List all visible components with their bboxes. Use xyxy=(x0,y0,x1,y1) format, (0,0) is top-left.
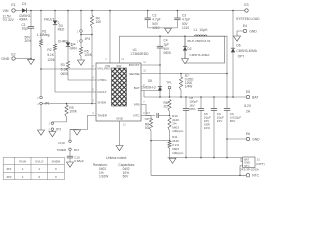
svg-text:UVLO: UVLO xyxy=(35,160,44,164)
svg-text:JP1: JP1 xyxy=(6,167,12,171)
svg-text:NTC: NTC xyxy=(252,174,260,178)
capacitor C5 10uF xyxy=(200,97,202,109)
wire TIMER pin net xyxy=(70,116,96,141)
capacitor C10 0.68uF timer xyxy=(69,151,71,157)
LED D3 RED xyxy=(53,21,57,25)
svg-text:0: 0 xyxy=(38,175,40,179)
ground below IC xyxy=(116,146,123,151)
wire BAT junction drop xyxy=(159,91,161,98)
ground below JP2 xyxy=(49,132,56,137)
svg-text:E2: E2 xyxy=(11,53,15,57)
svg-text:SYSTEM LOAD: SYSTEM LOAD xyxy=(236,17,260,21)
svg-text:C/10: C/10 xyxy=(58,141,65,145)
svg-text:16V: 16V xyxy=(217,119,223,123)
svg-text:10%: 10% xyxy=(204,126,210,130)
svg-text:TO 32V: TO 32V xyxy=(3,18,15,22)
svg-text:LT3652EDD: LT3652EDD xyxy=(131,52,150,56)
connector J1 battery DF3 xyxy=(243,157,255,168)
svg-text:CHRG: CHRG xyxy=(97,78,107,82)
svg-text:2Ω: 2Ω xyxy=(163,105,168,109)
wire C2 C3 common gnd xyxy=(148,27,178,29)
wire system load column xyxy=(232,11,234,49)
wire R3 to CHRG pin xyxy=(68,71,96,80)
svg-text:50V: 50V xyxy=(123,175,130,179)
svg-text:TIMER: TIMER xyxy=(57,148,67,152)
capacitor C4 1uF boost xyxy=(159,36,161,46)
terminal E7 NTC xyxy=(246,174,249,177)
ground below C2 C3 xyxy=(165,28,172,33)
wire GND rail to J1 xyxy=(241,158,243,162)
wire R1 to VIN_REG pin xyxy=(40,47,42,69)
svg-text:1: 1 xyxy=(38,167,40,171)
svg-text:1: 1 xyxy=(22,175,24,179)
wire JP1 to ground xyxy=(40,105,42,130)
svg-text:GRN: GRN xyxy=(70,46,78,50)
wire BOOST pin xyxy=(141,64,160,66)
svg-text:CMDSH-3: CMDSH-3 xyxy=(141,86,156,90)
svg-text:L1: L1 xyxy=(194,28,198,32)
wire R4 to SHDN net xyxy=(91,28,93,104)
svg-text:JP4: JP4 xyxy=(85,37,91,41)
component box IHLP / CMSH3 labels xyxy=(185,36,225,63)
wire BAT pin drop left xyxy=(143,91,145,98)
svg-text:10µF: 10µF xyxy=(22,27,30,31)
wire R2 to FAULT pin xyxy=(55,52,96,93)
LED D4 GRN xyxy=(66,43,70,47)
svg-text:E5: E5 xyxy=(246,90,250,94)
svg-text:8.2V: 8.2V xyxy=(244,104,252,108)
svg-text:R3: R3 xyxy=(61,63,65,67)
capacitor C3 4.7uF xyxy=(176,11,178,19)
ground below C1 xyxy=(28,59,35,64)
node VIN rail junctions xyxy=(30,10,32,12)
svg-text:VFB: VFB xyxy=(134,103,140,107)
wire BAT rail xyxy=(144,96,246,98)
svg-text:NTC: NTC xyxy=(133,114,140,118)
wire BAT pin xyxy=(141,90,160,92)
svg-text:GND: GND xyxy=(249,29,257,33)
svg-text:100ppm: 100ppm xyxy=(172,129,184,133)
capacitor C9 10uF xyxy=(213,97,215,109)
wire VIN terminal to D1 xyxy=(15,10,22,12)
capacitor C1 input 10uF xyxy=(30,11,32,27)
svg-text:SENSE: SENSE xyxy=(129,72,140,76)
wire NTC to J1 pin xyxy=(240,166,243,176)
ground below R5 xyxy=(78,60,85,65)
svg-text:1: 1 xyxy=(22,167,24,171)
svg-text:100ppm: 100ppm xyxy=(172,151,184,155)
diode D5 CMDSH-3 boost xyxy=(159,65,161,86)
wire top VIN rail xyxy=(26,10,244,12)
svg-text:SHDN: SHDN xyxy=(52,160,61,164)
svg-text:1210: 1210 xyxy=(182,26,189,30)
svg-text:20%: 20% xyxy=(25,39,32,43)
svg-text:FAULT: FAULT xyxy=(97,90,107,94)
svg-text:0: 0 xyxy=(55,167,57,171)
resistor R9 100K SHDN divider xyxy=(66,103,68,105)
svg-text:10µH: 10µH xyxy=(199,28,208,32)
svg-text:JP2: JP2 xyxy=(56,127,62,131)
wire D2 to ground xyxy=(184,51,186,59)
wire GND rail bottom xyxy=(168,157,242,159)
svg-text:1.13Meg: 1.13Meg xyxy=(37,33,50,37)
wire VIN rail to VIN pin xyxy=(109,11,111,64)
svg-text:D1: D1 xyxy=(22,2,26,6)
ground below C10 xyxy=(67,162,74,167)
resistor R1 1.13Meg VIN_REG divider xyxy=(40,11,42,40)
svg-text:JP2: JP2 xyxy=(6,175,12,179)
wire SHDN net horizontal xyxy=(42,103,96,105)
svg-text:10K: 10K xyxy=(96,20,103,24)
wire L1 to sense column xyxy=(207,36,227,97)
capacitor C6 0.022uF xyxy=(226,97,228,109)
svg-text:C7: C7 xyxy=(146,111,150,115)
svg-text:CMSH3-40MA: CMSH3-40MA xyxy=(190,53,211,57)
svg-text:CMSH3-40MA: CMSH3-40MA xyxy=(236,49,257,53)
svg-text:E6: E6 xyxy=(246,132,250,136)
svg-text:E4: E4 xyxy=(243,24,247,28)
ground below E4 xyxy=(234,36,241,41)
svg-text:BAT: BAT xyxy=(252,95,258,99)
svg-text:100K: 100K xyxy=(69,109,77,113)
terminal E6 GND output xyxy=(226,138,228,140)
svg-text:OPT: OPT xyxy=(238,54,245,58)
svg-text:5.1K: 5.1K xyxy=(47,53,54,57)
svg-text:RUN: RUN xyxy=(19,160,26,164)
capacitor C2 4.7uF xyxy=(147,11,149,19)
svg-text:1/16W: 1/16W xyxy=(99,175,108,179)
svg-text:50V: 50V xyxy=(230,119,236,123)
IC hatch block xyxy=(112,68,127,106)
diode D2 catch xyxy=(184,36,186,46)
ground on GND rail xyxy=(169,158,176,163)
svg-text:0.68µF: 0.68µF xyxy=(74,159,84,163)
wire E2 to C1 bottom xyxy=(15,58,31,60)
capacitor C8 100uF output xyxy=(185,97,187,109)
svg-text:0Ω: 0Ω xyxy=(145,126,150,130)
svg-text:DF3-3P-2DSA: DF3-3P-2DSA xyxy=(240,168,259,172)
resistor R7 0.05 sense xyxy=(180,74,182,78)
ground branch C/10 xyxy=(70,129,77,131)
svg-text:1/4W: 1/4W xyxy=(185,84,192,88)
svg-text:OPT: OPT xyxy=(145,117,151,121)
wire jumper link to R4 xyxy=(81,34,92,36)
wire SW net xyxy=(120,36,186,63)
svg-text:1206: 1206 xyxy=(47,58,54,62)
svg-text:TIMER: TIMER xyxy=(97,114,107,118)
svg-text:(OPT): (OPT) xyxy=(256,162,264,166)
svg-text:JP3: JP3 xyxy=(74,148,80,152)
svg-text:VIN: VIN xyxy=(3,9,9,13)
svg-text:R2: R2 xyxy=(47,48,51,52)
resistor R4 10K SHDN pull-up xyxy=(91,11,93,16)
wire VIN_REG down to JP1 xyxy=(40,69,42,96)
svg-text:VIN_REG: VIN_REG xyxy=(97,67,111,71)
svg-text:100K: 100K xyxy=(84,53,92,57)
wire SENSE pin xyxy=(141,73,227,75)
wire E4 to ground xyxy=(237,31,243,36)
diode D6 CMSH3-40MA OPT xyxy=(231,48,235,52)
svg-text:BAT: BAT xyxy=(134,86,140,90)
svg-text:E1: E1 xyxy=(11,3,15,7)
wire NTC bottom run xyxy=(151,174,246,176)
svg-text:X: X xyxy=(55,175,57,179)
svg-text:GND: GND xyxy=(116,117,124,121)
wire VFB pin to divider xyxy=(141,105,155,116)
svg-text:40MA: 40MA xyxy=(19,18,28,22)
svg-text:D6: D6 xyxy=(236,43,240,47)
jumper JP4 on rail xyxy=(80,11,82,30)
svg-text:J1: J1 xyxy=(257,157,261,161)
wire R9 bottom to JP2 xyxy=(52,117,66,122)
wire GND pin to ground xyxy=(119,121,121,146)
svg-text:D2: D2 xyxy=(187,47,191,51)
resistor R5 100K xyxy=(80,42,82,47)
svg-text:FAULT: FAULT xyxy=(44,17,54,21)
svg-text:D5: D5 xyxy=(148,79,152,83)
svg-text:SW: SW xyxy=(116,64,121,68)
svg-text:Unless noted:: Unless noted: xyxy=(106,156,127,160)
table jumper settings xyxy=(3,157,64,179)
svg-text:20%: 20% xyxy=(189,107,195,111)
svg-text:TP1: TP1 xyxy=(166,80,172,84)
svg-text:0805: 0805 xyxy=(164,51,171,55)
svg-text:GND: GND xyxy=(252,137,260,141)
svg-text:IHLP-2525CZ-01: IHLP-2525CZ-01 xyxy=(187,39,211,43)
wire NTC pin net xyxy=(141,115,151,117)
svg-text:GND: GND xyxy=(1,57,9,61)
svg-text:0603: 0603 xyxy=(61,72,68,76)
svg-text:RED: RED xyxy=(58,28,65,32)
ground below JP1 xyxy=(38,130,45,135)
svg-text:SHDN: SHDN xyxy=(97,101,106,105)
ground below D2 xyxy=(182,59,189,64)
svg-text:E3: E3 xyxy=(244,3,248,7)
svg-text:BOOST: BOOST xyxy=(129,63,140,67)
